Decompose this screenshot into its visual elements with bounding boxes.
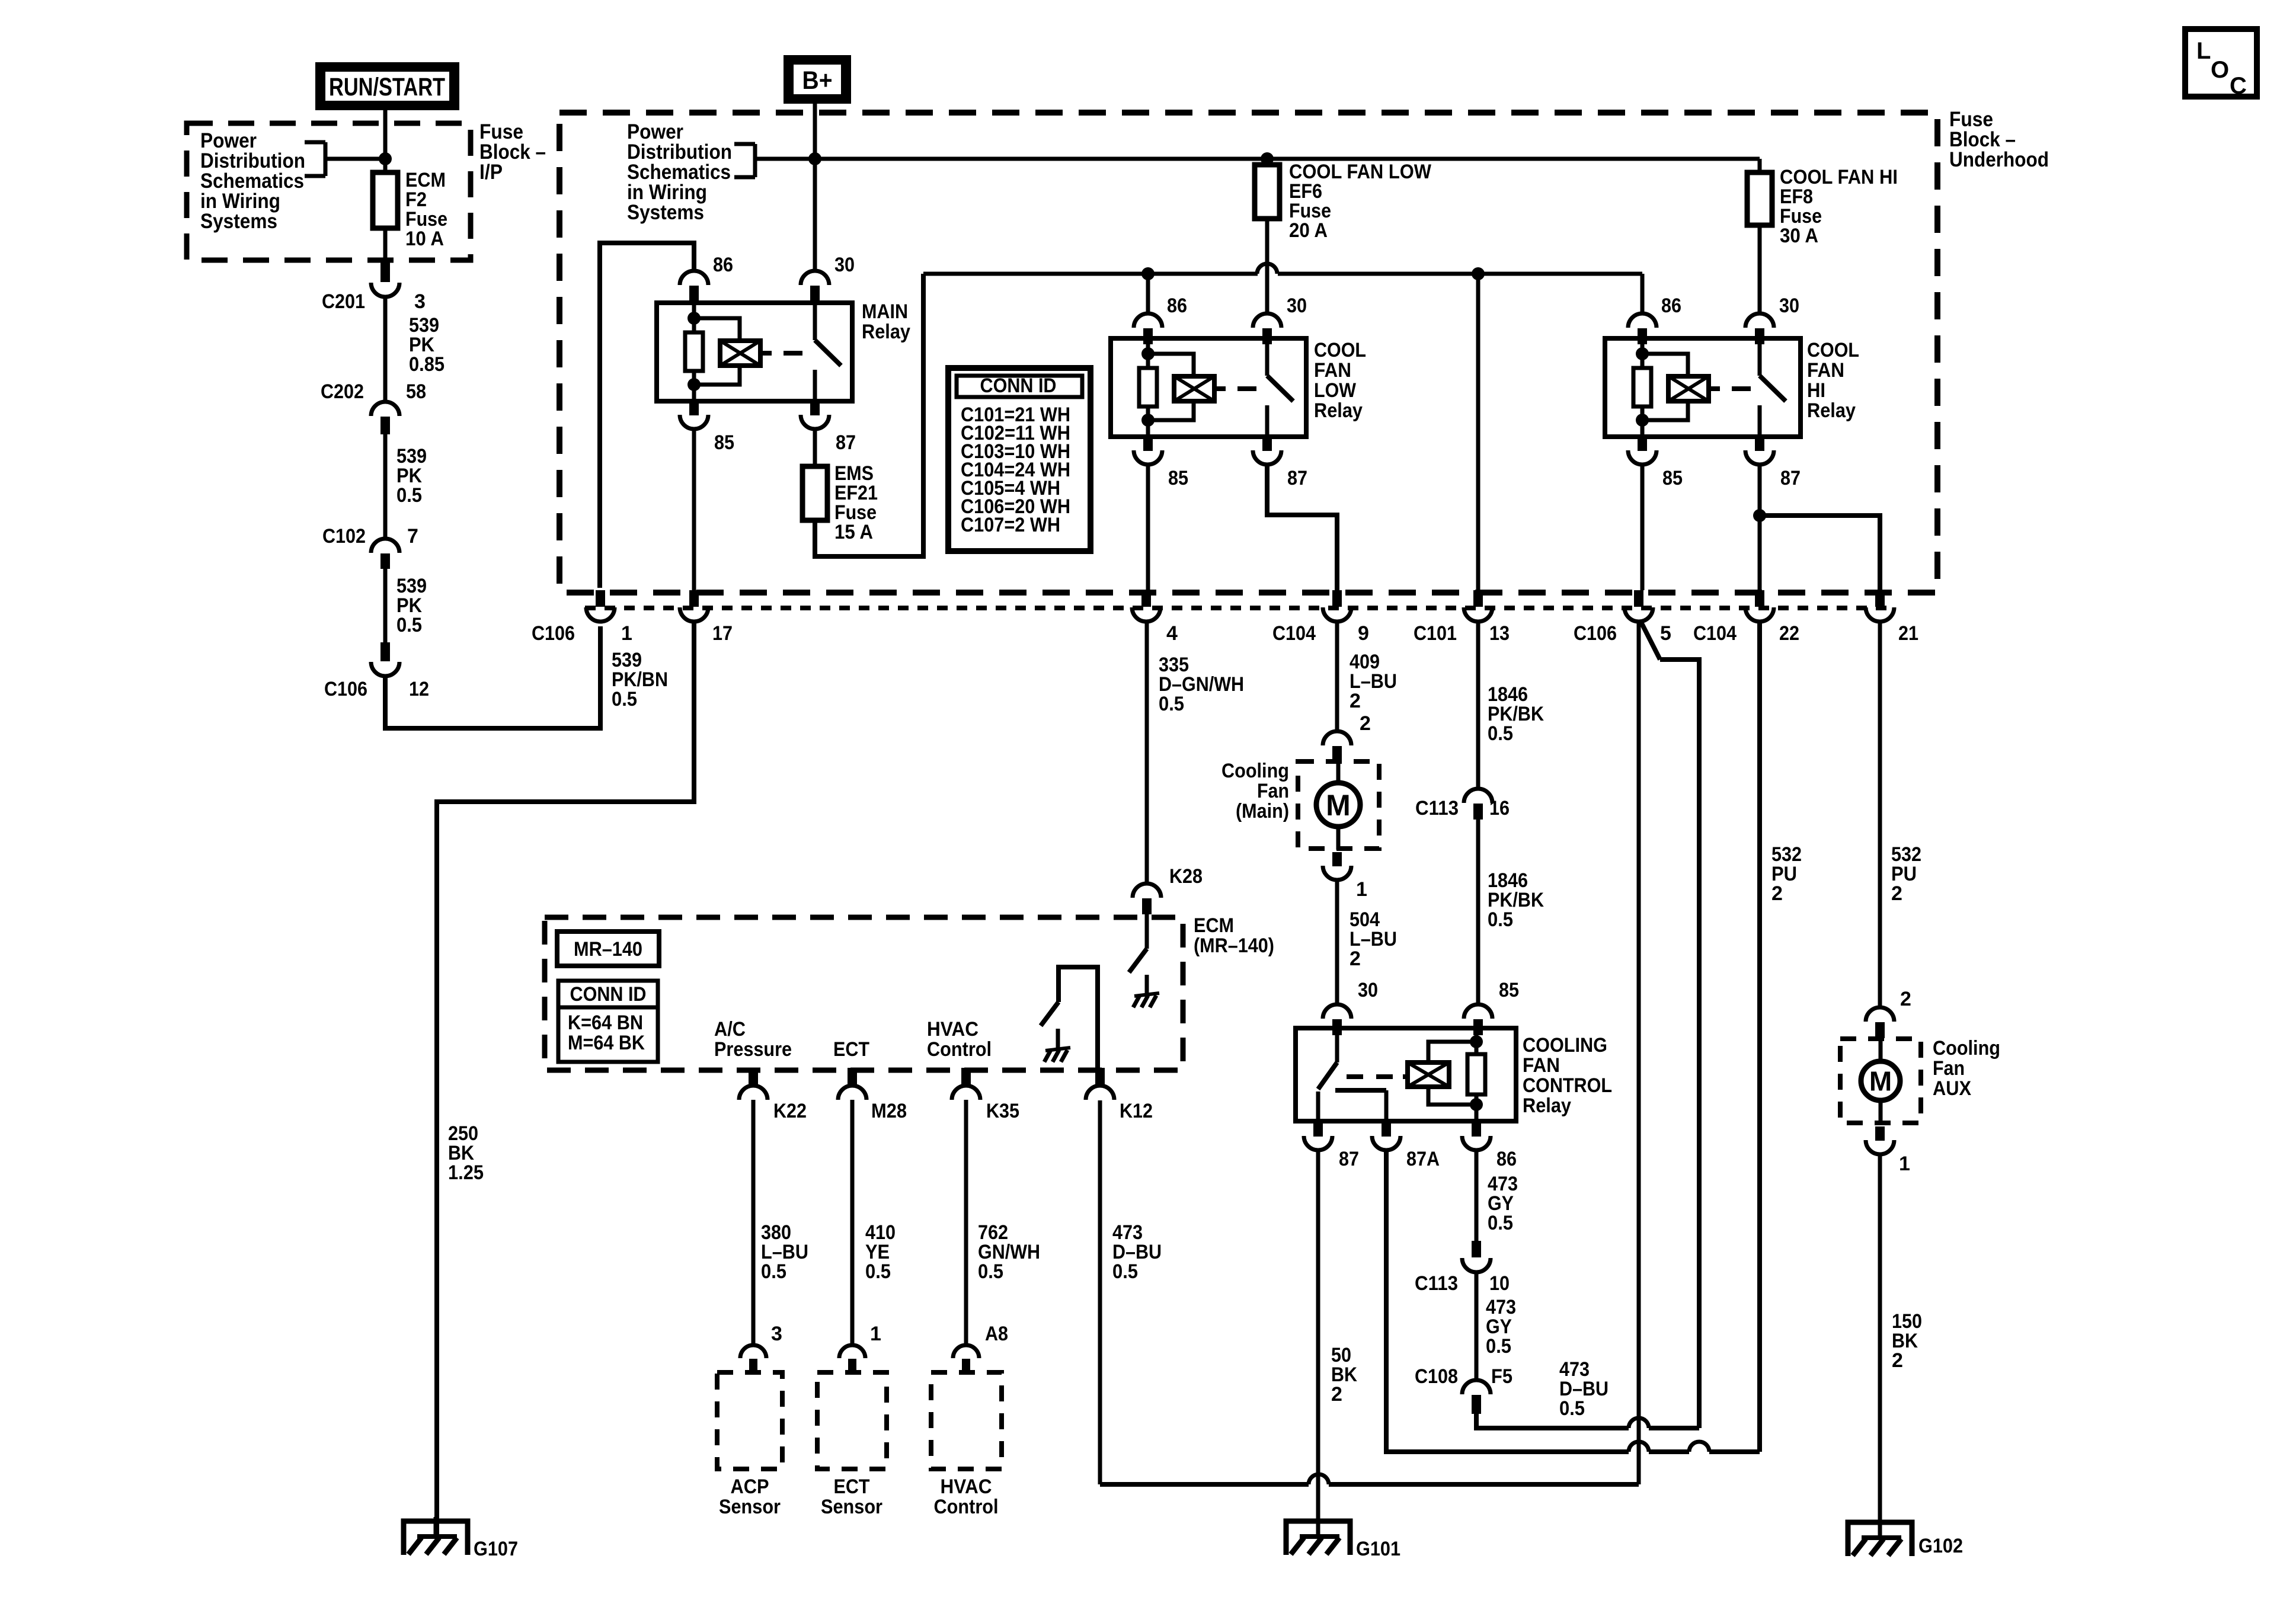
svg-text:0.5: 0.5: [1112, 1260, 1138, 1283]
wire M28 to ECT sensor: [850, 1100, 855, 1344]
svg-text:C106: C106: [1574, 622, 1617, 645]
svg-text:(MR–140): (MR–140): [1194, 934, 1274, 957]
connector HVAC control pin A8: [953, 1345, 979, 1374]
label C106 (row): [532, 622, 575, 645]
svg-text:0.5: 0.5: [1159, 693, 1184, 715]
label wire 50 BK 2: [1331, 1344, 1357, 1406]
svg-text:G107: G107: [474, 1538, 518, 1560]
label wire 539 PK 0.5 (lower): [396, 575, 427, 636]
connector COOL FAN LOW pin 85: [1134, 437, 1162, 465]
wire coil bus corner to HI 86: [1641, 274, 1645, 313]
svg-text:Systems: Systems: [627, 201, 704, 224]
wire LOW 85 to C106-4: [1146, 465, 1150, 590]
svg-text:C108: C108: [1415, 1365, 1458, 1388]
label wire 539 PK/BN 0.5: [612, 649, 668, 710]
wire 539 PK 0.5 C102 to C106: [383, 569, 388, 642]
svg-text:K35: K35: [986, 1100, 1019, 1122]
wire LOW 87 to C104-9: [1267, 465, 1337, 590]
relay K COOL FAN HI: [1605, 338, 1801, 437]
label pin F5: [1491, 1365, 1512, 1388]
fuse F2: [373, 172, 398, 228]
wire C106-4 to K28: [1145, 622, 1149, 884]
conn C106 pin 1: [586, 590, 615, 622]
connector ECT sensor pin 1: [839, 1345, 865, 1374]
svg-text:0.5: 0.5: [761, 1260, 786, 1283]
svg-text:Cooling: Cooling: [1221, 760, 1289, 782]
node junction coil bus to C101-13: [1472, 267, 1485, 280]
svg-text:0.5: 0.5: [1488, 1212, 1513, 1234]
svg-text:17: 17: [712, 622, 733, 645]
label Fuse Block - Underhood: [1949, 108, 2049, 171]
label K12: [1120, 1100, 1153, 1122]
svg-text:0.5: 0.5: [865, 1260, 891, 1283]
ground G102: [1848, 1517, 1912, 1556]
connector control relay pin 87A: [1372, 1122, 1400, 1150]
label pin 10: [1489, 1272, 1510, 1295]
svg-text:30: 30: [1287, 295, 1307, 317]
node junction B+ bus: [808, 152, 821, 165]
conn C106 pin 17: [680, 590, 708, 622]
label G101: [1356, 1538, 1400, 1560]
svg-text:L: L: [2196, 38, 2211, 64]
svg-text:85: 85: [1499, 979, 1519, 1001]
label wire 409 L-BU 2: [1350, 651, 1397, 712]
svg-text:M: M: [1326, 789, 1351, 822]
wire EF6 tap down: [1265, 159, 1269, 165]
svg-text:MAIN: MAIN: [862, 300, 908, 323]
svg-text:Relay: Relay: [862, 321, 910, 343]
label wire 473 GY 0.5 (upper): [1488, 1173, 1518, 1234]
svg-text:21: 21: [1898, 622, 1918, 645]
svg-text:2: 2: [1331, 1383, 1342, 1406]
svg-text:CONN ID: CONN ID: [980, 375, 1057, 397]
wire C106-5 to K12 run: [1100, 622, 1639, 1484]
svg-text:MR–140: MR–140: [574, 938, 642, 961]
component ACP Sensor dashed box: [717, 1372, 782, 1469]
label C108: [1415, 1365, 1458, 1388]
svg-text:0.5: 0.5: [1486, 1335, 1511, 1358]
label pin 85 (HI): [1662, 467, 1683, 489]
svg-text:1: 1: [621, 622, 632, 645]
conn C104 pin 22: [1745, 590, 1774, 622]
label ECM (MR-140): [1194, 914, 1274, 957]
wire motor main stubs: [1336, 763, 1341, 850]
svg-text:C201: C201: [322, 290, 365, 313]
wire control 87 to G101: [1316, 1150, 1320, 1536]
label ACP pin 3: [771, 1323, 782, 1345]
svg-text:2: 2: [1350, 690, 1361, 712]
bracket to power distribution note (I/P): [305, 142, 385, 176]
connector COOL FAN HI pin 30: [1745, 313, 1774, 344]
connector C113 pin 10: [1462, 1241, 1491, 1272]
fuse EF21: [802, 466, 827, 520]
svg-text:0.5: 0.5: [1488, 908, 1513, 931]
wire 539 PK 0.5 C202 to C102: [383, 434, 388, 539]
label ECT Sensor: [821, 1475, 882, 1518]
svg-text:1.25: 1.25: [448, 1161, 484, 1184]
svg-text:Relay: Relay: [1807, 399, 1856, 422]
label pin 16: [1489, 797, 1510, 820]
connector COOL FAN HI pin 85: [1628, 437, 1657, 465]
connector COOL FAN LOW pin 87: [1253, 437, 1281, 465]
connector row dashed line: [585, 606, 1894, 610]
svg-text:O: O: [2211, 57, 2229, 83]
svg-text:15 A: 15 A: [834, 521, 873, 543]
wire C104-21 to aux fan pin 2: [1878, 622, 1882, 1007]
svg-text:Sensor: Sensor: [719, 1496, 781, 1518]
wire control 87A to C104-22 run: [1386, 622, 1760, 1452]
wire control 86 to C113-10: [1475, 1150, 1479, 1241]
label wire 1846 PK/BK 0.5 (lower): [1488, 869, 1544, 931]
connector ECM M28: [838, 1068, 866, 1100]
svg-text:2: 2: [1900, 988, 1911, 1010]
connector COOL FAN LOW pin 86: [1134, 313, 1162, 344]
label pin 87 (control): [1339, 1148, 1359, 1170]
svg-text:Pressure: Pressure: [714, 1038, 792, 1061]
connector ECM K22: [739, 1068, 768, 1100]
wire HI 87 to C104-22: [1758, 465, 1762, 590]
svg-text:ECM: ECM: [1194, 914, 1234, 937]
table CONN ID: [948, 368, 1091, 551]
motor cooling fan main dashed box: [1298, 761, 1379, 849]
svg-text:58: 58: [406, 380, 426, 403]
svg-text:FAN: FAN: [1314, 359, 1351, 382]
component HVAC Control dashed box: [931, 1372, 1002, 1469]
wire B+ drop to MAIN relay 30: [813, 104, 817, 271]
connector control relay pin 85: [1464, 1004, 1492, 1035]
wire MAIN 87 to fuse EF21: [813, 429, 817, 466]
label wire 473 D-BU 0.5 (left): [1112, 1221, 1162, 1283]
wire C106-12 to C106-1 jog: [385, 626, 600, 728]
label wire 504 L-BU 2: [1350, 908, 1397, 970]
wire C101-13 down to C113-16: [1476, 622, 1480, 789]
legend LOC box: [2185, 29, 2257, 99]
label COOL FAN HI EF8 Fuse 30 A: [1780, 166, 1898, 247]
svg-text:2: 2: [1891, 882, 1902, 905]
label aux fan pin 2: [1900, 988, 1911, 1010]
label pin 86 (control): [1496, 1148, 1517, 1170]
connector cooling fan aux pin 1: [1866, 1126, 1894, 1154]
svg-text:C104: C104: [1272, 622, 1316, 645]
label pin 7: [407, 525, 418, 548]
label pin 12: [409, 678, 429, 700]
label pin 3: [414, 290, 426, 313]
motor cooling fan aux dashed box: [1840, 1039, 1921, 1123]
wire power bus B+ horizontal: [755, 157, 1760, 161]
label wire 335 D-GN/WH 0.5: [1159, 654, 1244, 715]
wire hop over G101 drop (K12 run): [1309, 1474, 1329, 1484]
svg-text:A/C: A/C: [714, 1018, 746, 1041]
relay K COOL FAN LOW: [1111, 338, 1306, 437]
connector C201 pin 3: [371, 283, 399, 297]
label pin 13: [1489, 622, 1510, 645]
ground G101: [1286, 1517, 1350, 1555]
label pin 86 (HI): [1661, 295, 1681, 317]
label wire 532 PU 2 (left): [1771, 843, 1802, 905]
svg-text:Systems: Systems: [200, 210, 277, 233]
svg-text:C107=2 WH: C107=2 WH: [961, 514, 1060, 536]
label K35: [986, 1100, 1019, 1122]
label COOL FAN LOW Relay: [1314, 339, 1366, 422]
wire hop over K12 return (C108 run): [1629, 1418, 1649, 1428]
label HVAC Control: [927, 1018, 992, 1061]
label pin 30 (control): [1358, 979, 1378, 1001]
svg-text:86: 86: [1167, 295, 1187, 317]
wire coil bus drop to LOW 86: [1146, 274, 1150, 313]
svg-text:85: 85: [714, 431, 734, 454]
label wire 762 GN/WH 0.5: [978, 1221, 1040, 1283]
wire hop EF6 over coil bus: [1257, 264, 1277, 274]
connector COOL FAN HI pin 86: [1628, 313, 1657, 344]
wire junction to C104-21: [1760, 516, 1880, 590]
label COOL FAN LOW EF6 Fuse 20 A: [1289, 161, 1432, 242]
label ECM F2 Fuse 10 A: [405, 169, 447, 250]
label C113 (10): [1415, 1272, 1458, 1295]
connector ECM K35: [952, 1068, 980, 1100]
ground ECM internal (K28 driver): [1133, 993, 1159, 1007]
svg-text:12: 12: [409, 678, 429, 700]
svg-text:K12: K12: [1120, 1100, 1153, 1122]
label pin 85 (control): [1499, 979, 1519, 1001]
svg-text:LOW: LOW: [1314, 379, 1357, 402]
svg-text:FAN: FAN: [1807, 359, 1844, 382]
wire coil bus horizontal: [923, 272, 1642, 276]
connector control relay pin 86: [1462, 1122, 1491, 1150]
connector C202 pin 58: [371, 402, 399, 434]
wire fan main pin1 to control relay 30: [1335, 880, 1339, 1004]
label wire 250 BK 1.25: [448, 1122, 484, 1184]
fuse EF6: [1255, 165, 1280, 219]
connector ACP sensor pin 3: [740, 1345, 766, 1374]
fuse EF8: [1747, 172, 1772, 225]
svg-text:A8: A8: [985, 1323, 1008, 1345]
svg-text:HI: HI: [1807, 379, 1825, 402]
label HVAC pin A8: [985, 1323, 1008, 1345]
svg-text:1: 1: [1899, 1153, 1910, 1175]
svg-text:87: 87: [836, 431, 856, 454]
label pin 86 (LOW): [1167, 295, 1187, 317]
svg-text:30: 30: [1358, 979, 1378, 1001]
label pin 21: [1898, 622, 1918, 645]
label C104 (row left): [1272, 622, 1316, 645]
wire RUN/START to fuse F2: [383, 108, 388, 172]
svg-text:C104: C104: [1693, 622, 1737, 645]
wire K35 to HVAC control: [964, 1100, 968, 1344]
label pin 22: [1779, 622, 1799, 645]
connector ECM K12: [1086, 1068, 1114, 1100]
svg-text:13: 13: [1489, 622, 1510, 645]
label pin 85 (MAIN): [714, 431, 734, 454]
svg-text:ECT: ECT: [834, 1475, 870, 1498]
ground G107: [404, 1517, 468, 1555]
note power distribution (I/P): [200, 129, 305, 233]
wire K28 into ECM: [1145, 914, 1149, 949]
connector COOL FAN LOW pin 30: [1253, 313, 1281, 344]
label wire 150 BK 2: [1892, 1310, 1922, 1372]
connector C102 pin 7: [371, 539, 399, 569]
svg-text:85: 85: [1168, 467, 1188, 489]
label C104 (row right): [1693, 622, 1737, 645]
svg-text:0.5: 0.5: [1559, 1397, 1585, 1420]
svg-text:AUX: AUX: [1933, 1077, 1971, 1100]
label COOL FAN HI Relay: [1807, 339, 1859, 422]
svg-text:5: 5: [1660, 622, 1671, 645]
label Cooling Fan AUX: [1933, 1037, 2000, 1100]
connector MAIN relay pin 86: [680, 271, 708, 302]
svg-text:0.5: 0.5: [612, 688, 637, 710]
connector control relay pin 87: [1304, 1122, 1332, 1150]
svg-text:HVAC: HVAC: [927, 1018, 978, 1041]
wire C106-17 to G107 run: [437, 622, 694, 1536]
svg-text:3: 3: [414, 290, 426, 313]
label pin 87 (MAIN): [836, 431, 856, 454]
wire MAIN relay 86 feed jog: [600, 243, 694, 588]
label wire 473 GY 0.5 (lower): [1486, 1296, 1516, 1358]
connector cooling fan aux pin 2: [1866, 1007, 1894, 1038]
conn C106 pin 5: [1625, 590, 1653, 622]
label C106 (pin 12): [324, 678, 367, 700]
fuse block I/P dashed box: [187, 123, 471, 260]
wire HI 85 to C106-5: [1641, 465, 1645, 590]
power node RUN/START: [315, 62, 459, 110]
svg-text:Fan: Fan: [1933, 1057, 1965, 1080]
node junction EF6 tap: [1261, 152, 1274, 165]
conn C104 pin 21: [1866, 590, 1894, 622]
relay K COOLING FAN CONTROL: [1296, 1028, 1516, 1121]
label pin 87 (HI): [1780, 467, 1801, 489]
connector MAIN relay pin 87: [801, 401, 829, 429]
label EMS EF21 Fuse 15 A: [834, 462, 878, 543]
svg-text:3: 3: [771, 1323, 782, 1345]
wire coil bus to C101-13: [1476, 274, 1480, 590]
svg-text:ACP: ACP: [731, 1475, 769, 1498]
svg-text:Fan: Fan: [1257, 780, 1289, 802]
connector cooling fan main pin 2: [1323, 731, 1351, 762]
svg-text:10: 10: [1489, 1272, 1510, 1295]
svg-text:30: 30: [1779, 295, 1799, 317]
label wire 1846 PK/BK 0.5 (upper): [1488, 683, 1544, 745]
wire C108-F5 to C106-5 return: [1476, 622, 1699, 1428]
node junction HI 87 split: [1753, 509, 1766, 522]
label Cooling Fan (Main): [1221, 760, 1289, 822]
connector ECM K28: [1133, 884, 1161, 914]
label HVAC Control (box): [934, 1475, 999, 1518]
svg-text:B+: B+: [802, 66, 833, 95]
label C102: [322, 525, 366, 548]
wire hop over K12 return (87A run): [1629, 1442, 1649, 1452]
node junction on RUN/START feed: [379, 152, 392, 165]
module ECM dashed box: [545, 917, 1183, 1070]
box CONN ID (ECM): [558, 981, 658, 1062]
label pin 17: [712, 622, 733, 645]
label fan pin 2 (main): [1360, 712, 1371, 735]
svg-text:(Main): (Main): [1236, 800, 1289, 822]
svg-text:Control: Control: [934, 1496, 999, 1518]
svg-text:K22: K22: [773, 1100, 807, 1122]
label M28: [871, 1100, 907, 1122]
wire C113-10 to C108-F5: [1475, 1272, 1479, 1380]
svg-text:0.5: 0.5: [396, 614, 422, 636]
wire C113-16 to control relay 85: [1476, 820, 1480, 1004]
relay K MAIN: [657, 303, 852, 401]
svg-text:86: 86: [1661, 295, 1681, 317]
svg-text:C113: C113: [1415, 797, 1459, 820]
wire EF6 to COOL FAN LOW 30: [1265, 219, 1269, 313]
wire aux fan to G102: [1878, 1154, 1882, 1536]
connector cooling fan main pin 1: [1323, 852, 1351, 880]
label C113 (16): [1415, 797, 1459, 820]
label pin 87 (LOW): [1287, 467, 1307, 489]
svg-text:4: 4: [1166, 622, 1178, 645]
svg-text:M28: M28: [871, 1100, 907, 1122]
svg-text:F5: F5: [1491, 1365, 1512, 1388]
component ECT Sensor dashed box: [817, 1372, 887, 1469]
fuse block Underhood dashed box: [559, 113, 1937, 593]
connector C108 pin F5: [1462, 1380, 1491, 1414]
svg-text:1: 1: [1356, 878, 1367, 901]
svg-text:COOL: COOL: [1807, 339, 1859, 361]
svg-text:Relay: Relay: [1314, 399, 1363, 422]
motor M cooling fan main: [1316, 783, 1360, 827]
svg-text:9: 9: [1358, 622, 1369, 645]
svg-text:C: C: [2230, 73, 2247, 99]
svg-text:Relay: Relay: [1523, 1094, 1571, 1117]
svg-text:16: 16: [1489, 797, 1510, 820]
label COOLING FAN CONTROL Relay: [1523, 1034, 1612, 1117]
svg-text:K=64 BN: K=64 BN: [568, 1012, 643, 1034]
label pin 86 (MAIN): [713, 254, 733, 276]
label fan pin 1 (main): [1356, 878, 1367, 901]
conn C106 pin 4: [1132, 590, 1160, 622]
node junction coil bus to COOL FAN LOW 86: [1141, 267, 1155, 280]
note power distribution (underhood): [627, 120, 732, 224]
svg-text:ECT: ECT: [833, 1038, 869, 1061]
svg-text:87A: 87A: [1406, 1148, 1440, 1170]
svg-text:G101: G101: [1356, 1538, 1400, 1560]
label wire 539 PK 0.5 (upper): [396, 445, 427, 507]
label pin 30 (HI): [1779, 295, 1799, 317]
connector control relay pin 30: [1323, 1004, 1351, 1035]
svg-text:7: 7: [407, 525, 418, 548]
svg-text:10 A: 10 A: [405, 228, 444, 250]
svg-text:RUN/START: RUN/START: [329, 73, 445, 101]
wire K22 to ACP sensor: [752, 1100, 756, 1344]
conn C104 pin 9: [1323, 590, 1351, 622]
label pin 87A (control): [1406, 1148, 1440, 1170]
bracket to power distribution note (underhood): [734, 144, 755, 177]
wire C104-22 down: [1758, 622, 1762, 1452]
svg-text:30: 30: [834, 254, 855, 276]
label pin 58: [406, 380, 426, 403]
label pin 5: [1660, 622, 1671, 645]
svg-text:0.85: 0.85: [409, 353, 445, 376]
wire fuse F2 to C201: [380, 228, 390, 282]
svg-text:22: 22: [1779, 622, 1799, 645]
svg-text:2: 2: [1350, 948, 1361, 970]
wire power bus corner to EF8: [1758, 159, 1762, 172]
svg-text:Sensor: Sensor: [821, 1496, 882, 1518]
svg-text:30 A: 30 A: [1780, 225, 1818, 247]
ground ECM internal (K12 driver): [1044, 1048, 1070, 1062]
svg-text:2: 2: [1771, 882, 1783, 905]
label wire 380 L-BU 0.5: [761, 1221, 808, 1283]
svg-text:C113: C113: [1415, 1272, 1458, 1295]
box MR-140: [557, 932, 659, 966]
label wire 473 D-BU 0.5 (right): [1559, 1358, 1609, 1420]
svg-text:87: 87: [1780, 467, 1801, 489]
svg-text:C106: C106: [532, 622, 575, 645]
wire hop over C108 return (87A run): [1689, 1442, 1709, 1452]
